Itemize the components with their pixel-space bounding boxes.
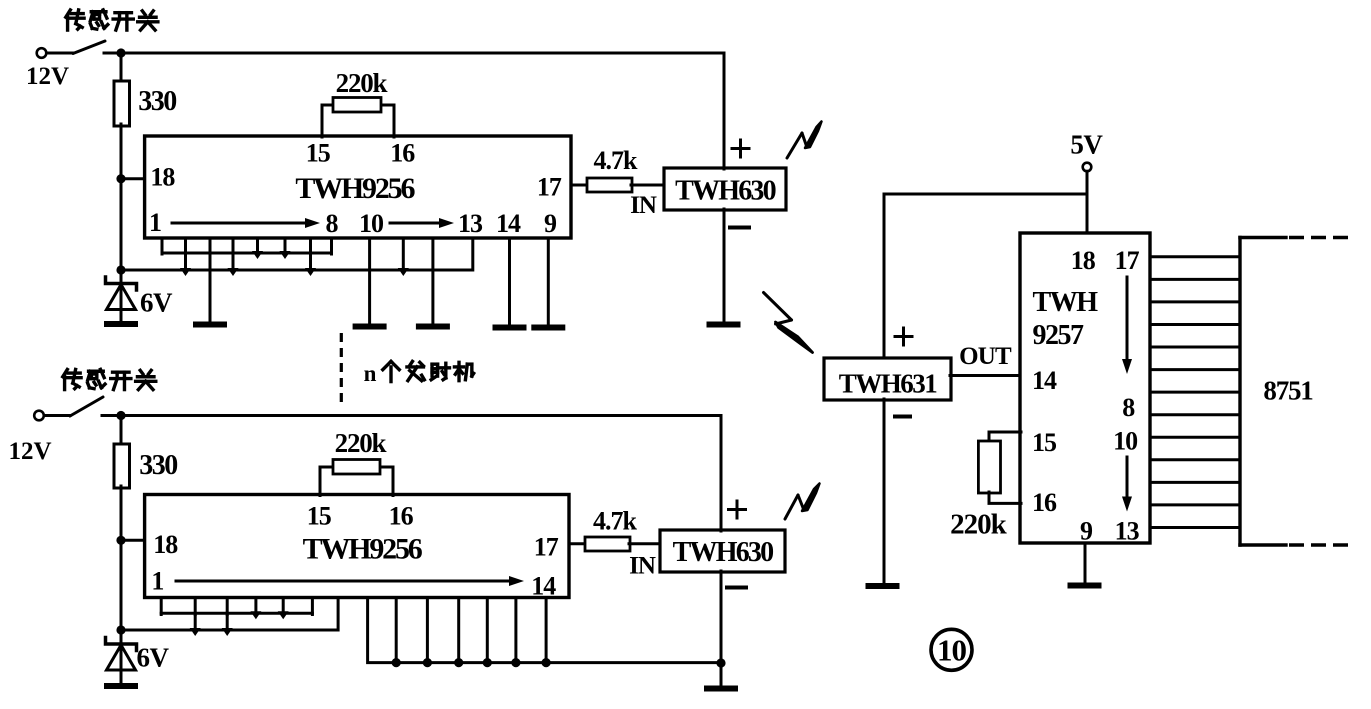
wire: rail down to U4 + xyxy=(720,416,723,532)
antenna: receive middle xyxy=(764,293,792,321)
nodes: bus junctions xyxy=(392,658,401,667)
svg-text:IN: IN xyxy=(629,553,656,580)
IC U3 TWH9256 body xyxy=(145,495,569,598)
wire: U3 drop b xyxy=(226,613,229,630)
wire: U5 OUT to U6 pin14 xyxy=(950,374,1021,377)
svg-text:15: 15 xyxy=(1032,428,1057,457)
wire: U3 data pin a to bus corner xyxy=(368,598,721,663)
svg-text:5V: 5V xyxy=(1070,130,1103,160)
switch S1 terminal circle xyxy=(37,48,47,58)
node: zener junction bottom xyxy=(116,625,125,634)
svg-text:8: 8 xyxy=(326,209,339,238)
label - (U2) xyxy=(730,226,749,230)
svg-text:18: 18 xyxy=(1071,246,1096,275)
wire: rail down to U2 + xyxy=(723,53,726,169)
svg-text:220k: 220k xyxy=(950,509,1008,541)
antenna: transmit bottom xyxy=(785,495,798,519)
resistor R7 220k vertical xyxy=(978,441,1000,493)
ground: under pin9 xyxy=(531,325,565,331)
wire: U1 pin16 stub up xyxy=(393,105,396,137)
wire: U3 sub-rail xyxy=(161,612,312,615)
wire: R5 right lead xyxy=(379,466,393,469)
ground: zener top xyxy=(104,321,138,327)
svg-text:16: 16 xyxy=(389,502,414,531)
resistor R3 4.7k top xyxy=(587,178,632,192)
svg-text:9: 9 xyxy=(1080,517,1093,546)
svg-text:220k: 220k xyxy=(336,68,388,98)
svg-text:9257: 9257 xyxy=(1033,320,1085,351)
node: U3 ground-rail junction 2 xyxy=(222,628,233,636)
svg-text:6V: 6V xyxy=(137,643,170,673)
svg-text:17: 17 xyxy=(1115,246,1140,275)
wire: U3 pin17 lead xyxy=(569,542,586,545)
svg-text:10: 10 xyxy=(937,633,967,668)
wire: R3 to TWH630 IN xyxy=(631,184,665,187)
node: rail/R1 junction top xyxy=(116,48,125,57)
node: ground-rail junction 2 xyxy=(228,268,239,276)
wire: drop b to ground rail xyxy=(232,253,235,270)
arrow 10->13 (U6) xyxy=(1126,457,1129,498)
label: sensor switch (Chinese) bottom xyxy=(63,369,81,389)
antenna: transmit top xyxy=(787,133,802,158)
svg-text:13: 13 xyxy=(458,209,483,238)
svg-text:17: 17 xyxy=(534,533,559,562)
node: rail/R4 junction bottom xyxy=(116,411,125,420)
wires: U1 bottom pins 2-7 stubs xyxy=(161,238,164,254)
wire: pin11 to ground xyxy=(368,238,371,324)
wires: data bus U6 to 8751 xyxy=(1150,255,1240,258)
svg-text:15: 15 xyxy=(307,502,332,531)
switch S1 lead wire xyxy=(47,52,74,55)
wire: U1 pin17 lead xyxy=(571,184,588,187)
svg-text:16: 16 xyxy=(1032,488,1057,517)
ground: U6 pin9 xyxy=(1068,583,1102,589)
svg-text:330: 330 xyxy=(139,450,177,481)
resistor R1 330 top xyxy=(114,81,130,126)
svg-text:18: 18 xyxy=(153,530,178,559)
switch S2 blade xyxy=(70,397,103,416)
label: sensor switch (Chinese) top xyxy=(66,10,84,30)
svg-text:13: 13 xyxy=(1115,517,1140,546)
resistor R4 330 bottom xyxy=(114,444,130,488)
svg-text:TWH: TWH xyxy=(1033,287,1099,318)
resistor R6 4.7k bottom xyxy=(585,537,630,551)
ground: U4 bottom xyxy=(704,686,738,692)
wire: pin13 to ground xyxy=(431,238,434,324)
svg-text:14: 14 xyxy=(531,572,556,601)
wire: R2 left lead xyxy=(322,104,334,107)
svg-text:4.7k: 4.7k xyxy=(594,146,639,175)
ground: under pin13 xyxy=(416,324,450,330)
node: U3 ground-rail junction 1 xyxy=(190,628,201,636)
module U2 TWH630 body xyxy=(664,168,786,210)
wire: ground rail top xyxy=(121,238,473,270)
zener D1 6V top xyxy=(120,270,123,323)
node: ground-rail junction 4 xyxy=(398,268,409,276)
wire: R1 top lead xyxy=(120,53,123,83)
svg-text:TWH630: TWH630 xyxy=(675,176,775,207)
wire: 5V branch to U5 xyxy=(884,194,1087,358)
svg-text:1: 1 xyxy=(149,208,161,237)
wire: drop a to ground rail xyxy=(184,253,187,270)
wire: U6 pin15 to R7 xyxy=(989,432,1021,442)
power terminal circle 5V xyxy=(1083,163,1092,172)
resistor R2 220k top xyxy=(333,98,381,113)
svg-text:OUT: OUT xyxy=(959,343,1012,370)
wire: U3 pin16 stub up xyxy=(392,467,395,496)
node: bus/U4 junction xyxy=(716,658,725,667)
resistor R5 220k bottom xyxy=(333,460,380,475)
wire: R4 top lead xyxy=(120,416,123,447)
switch S1 blade xyxy=(73,41,105,54)
svg-text:n: n xyxy=(364,361,377,386)
label + (U5) xyxy=(895,335,912,338)
wire: +12V top rail xyxy=(104,52,724,55)
node: U3 sub-rail junction a xyxy=(250,611,261,619)
IC U1 TWH9256 body xyxy=(145,136,571,238)
svg-text:4.7k: 4.7k xyxy=(593,507,638,536)
switch S2 terminal circle xyxy=(34,411,44,421)
svg-text:330: 330 xyxy=(138,86,176,117)
svg-text:220k: 220k xyxy=(335,428,387,458)
wire: drop c to ground rail xyxy=(309,253,312,270)
MCU 8751 bottom edge xyxy=(1240,543,1286,546)
wire: U1 sub-rail xyxy=(162,252,332,255)
label - (U4) xyxy=(727,586,746,590)
svg-text:8751: 8751 xyxy=(1263,376,1313,406)
MCU 8751 left edge xyxy=(1238,238,1241,546)
node: zener junction top xyxy=(116,265,125,274)
node: pin18 branch bottom xyxy=(116,536,125,545)
svg-text:8: 8 xyxy=(1122,393,1135,422)
MCU 8751 top edge xyxy=(1240,236,1286,239)
svg-text:IN: IN xyxy=(630,192,657,219)
wire: pin14 to ground xyxy=(508,238,511,325)
wire: U3 ground rail xyxy=(121,598,338,631)
arrow pin10 to pin13 (U1) xyxy=(390,222,440,225)
svg-text:6V: 6V xyxy=(140,288,173,318)
svg-text:12V: 12V xyxy=(26,63,69,90)
node: pin18 branch top xyxy=(116,174,125,183)
wire: U6 pin9 to ground xyxy=(1084,543,1087,584)
svg-text:17: 17 xyxy=(537,172,562,201)
arrow pin1 to pin8 (U1) xyxy=(172,222,306,225)
wire: U3 pin15 stub up xyxy=(319,467,322,496)
ground: under pin11 xyxy=(353,324,387,330)
dashed separator line xyxy=(340,333,343,403)
svg-text:16: 16 xyxy=(390,139,415,168)
wires: U3 bottom pins stubs xyxy=(160,598,163,615)
ground: under pin14 xyxy=(493,325,527,331)
label + (U4) xyxy=(729,508,746,511)
wire: R2 right lead xyxy=(380,104,394,107)
switch S2 lead wire xyxy=(44,414,70,417)
wire: to pin 18 bottom IC xyxy=(121,539,146,542)
wire: U5 - down to ground xyxy=(883,399,886,586)
wire: +12V bottom rail xyxy=(102,414,721,417)
wire: pin3 to ground xyxy=(209,253,212,322)
label - (U5) xyxy=(895,415,910,419)
ground: zener bottom xyxy=(104,683,138,689)
wire: R4 bottom to zener node xyxy=(120,486,123,630)
svg-text:TWH9256: TWH9256 xyxy=(303,533,423,566)
zener D2 6V bottom xyxy=(120,630,123,685)
svg-text:14: 14 xyxy=(496,209,521,238)
node: ground-rail junction 1 xyxy=(180,268,191,276)
wire: 5V down to U6 top xyxy=(1086,171,1089,234)
svg-text:14: 14 xyxy=(1032,366,1057,395)
arrow 17->8 (U6) xyxy=(1126,277,1129,360)
arrow pin1 to pin14 (U3) xyxy=(176,580,510,583)
node: sub-rail junction b xyxy=(280,251,291,259)
label + (U2) xyxy=(732,147,749,150)
node: sub-rail junction a xyxy=(252,251,263,259)
wire: to pin 18 top IC xyxy=(121,177,146,180)
wires: U3 data pins to bus xyxy=(395,598,398,663)
svg-text:9: 9 xyxy=(544,209,557,238)
ground: U5 xyxy=(866,583,900,589)
wire: U4 - down to ground xyxy=(720,571,723,687)
module U5 TWH631 body xyxy=(824,358,951,400)
module U4 TWH630 body xyxy=(660,530,785,572)
svg-text:12V: 12V xyxy=(8,438,51,465)
wire: pin9 to ground xyxy=(547,238,550,325)
wire: U2 - down to ground xyxy=(723,209,726,322)
svg-text:15: 15 xyxy=(306,139,331,168)
wire: R7 to U6 pin16 xyxy=(989,492,1021,503)
IC U6 TWH9257 body xyxy=(1020,233,1150,543)
svg-text:10: 10 xyxy=(1113,427,1138,456)
svg-text:18: 18 xyxy=(150,162,175,191)
svg-text:TWH631: TWH631 xyxy=(839,369,938,399)
node: ground-rail junction 3 xyxy=(305,268,316,276)
svg-text:1: 1 xyxy=(151,567,163,596)
ground: U2 top xyxy=(707,322,741,328)
wire: R5 left lead xyxy=(320,466,334,469)
svg-text:TWH630: TWH630 xyxy=(673,537,773,568)
node: U3 sub-rail junction b xyxy=(278,611,289,619)
svg-text:TWH9256: TWH9256 xyxy=(295,172,415,205)
wire: R1 bottom to zener node xyxy=(120,124,123,270)
wire: U3 drop a xyxy=(194,613,197,630)
wire: R6 to TWH630 IN xyxy=(629,542,662,545)
ground: under pin3 xyxy=(193,322,227,328)
wire: U1 pin15 stub up xyxy=(321,105,324,137)
wire: pin12 stub to rail xyxy=(402,238,405,270)
figure number 10 circled xyxy=(931,629,972,670)
svg-text:10: 10 xyxy=(359,209,384,238)
